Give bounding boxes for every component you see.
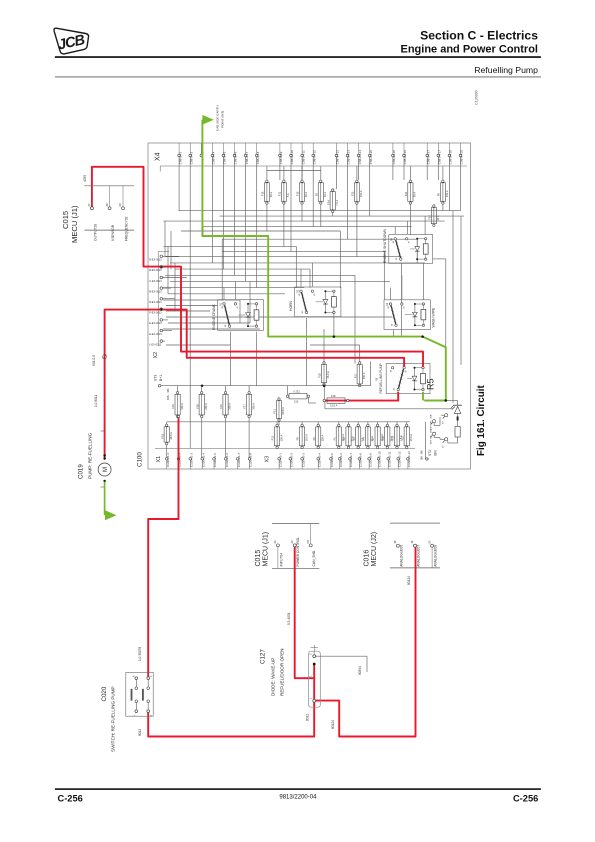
svg-text:X2: X2 <box>153 352 159 359</box>
svg-text:C100-X3-8: C100-X3-8 <box>359 453 363 467</box>
fuse F2 <box>342 422 355 449</box>
connector X4 bracket <box>160 165 467 167</box>
relay R2 HORN <box>289 287 341 317</box>
svg-text:C100-X1-7: C100-X1-7 <box>237 453 241 467</box>
svg-text:8012: 8012 <box>306 714 310 721</box>
red wire: C019 pump to X2-6 to R5 switch 87 <box>105 310 405 458</box>
svg-text:F24: F24 <box>428 215 432 220</box>
fuse F4 <box>362 422 375 449</box>
svg-text:150 A: 150 A <box>362 372 366 379</box>
svg-text:ST2: ST2 <box>428 450 432 456</box>
relay R1 ENGINE CRANK <box>212 300 263 331</box>
svg-text:27: 27 <box>87 203 91 207</box>
fuse F16 <box>160 422 173 458</box>
fuse F22 <box>351 180 364 204</box>
junction green/diode <box>445 399 448 402</box>
svg-text:0.5 4031: 0.5 4031 <box>287 612 291 625</box>
wire mesh vertical runs <box>165 157 461 448</box>
connector X1 pins <box>165 453 252 469</box>
svg-text:KEY SW :: 30A: KEY SW :: 30A <box>430 414 433 429</box>
svg-text:FREQUENCY02: FREQUENCY02 <box>125 216 129 241</box>
svg-text:28: 28 <box>105 203 109 207</box>
svg-text:C100-X3-6: C100-X3-6 <box>339 453 343 467</box>
svg-text:C-256: C-256 <box>58 794 83 804</box>
svg-text:Refuelling Pump: Refuelling Pump <box>474 65 538 75</box>
svg-text:C100-X1-6: C100-X1-6 <box>225 453 229 467</box>
svg-text:DIODE: WAKE-UP: DIODE: WAKE-UP <box>271 658 276 696</box>
svg-text:F17: F17 <box>243 404 247 409</box>
pin overlays <box>90 207 416 713</box>
svg-text:300 A: 300 A <box>204 403 208 410</box>
ST2 IGN cluster <box>420 414 448 461</box>
svg-text:C015: C015 <box>255 550 262 567</box>
svg-text:MECU (J1): MECU (J1) <box>70 205 79 243</box>
svg-text:X01 0.5: X01 0.5 <box>92 355 96 366</box>
svg-text:20: 20 <box>427 540 431 544</box>
red wire: fuse F28 to R5 switch 30 <box>326 392 399 401</box>
svg-text:WASH WIPE: WASH WIPE <box>432 307 436 327</box>
wire <box>248 418 250 458</box>
relay R4 ENGINE SHUTDOWN <box>383 229 433 264</box>
svg-text:F27: F27 <box>400 435 404 440</box>
svg-text:X3: X3 <box>264 456 270 463</box>
svg-text:E-EX-0013: E-EX-0013 <box>149 322 162 325</box>
LED indicator <box>447 401 462 444</box>
svg-text:150 A: 150 A <box>279 434 283 441</box>
svg-text:9813/2200-04: 9813/2200-04 <box>279 795 317 801</box>
svg-text:PUMP: RE-FUELLING: PUMP: RE-FUELLING <box>88 432 93 479</box>
svg-text:1.0 8011: 1.0 8011 <box>94 395 98 407</box>
svg-text:152: 152 <box>294 399 299 403</box>
svg-text:C100-X3-2: C100-X3-2 <box>290 453 294 467</box>
fuse F14 <box>326 189 339 213</box>
svg-text:F15: F15 <box>296 191 300 196</box>
svg-text:ANALOGUE09: ANALOGUE09 <box>434 545 438 567</box>
svg-text:F15: F15 <box>219 404 223 409</box>
svg-text:DIA :: M6: DIA :: M6 <box>166 388 170 400</box>
svg-text:15.0 A: 15.0 A <box>326 371 330 379</box>
svg-text:C016: C016 <box>364 550 371 567</box>
svg-text:C5: C5 <box>306 539 310 543</box>
svg-text:38.5 A: 38.5 A <box>169 432 173 440</box>
earth wire (green) R5 coil leg <box>422 392 424 401</box>
svg-text:HORN: HORN <box>289 300 293 311</box>
svg-text:ENGINE SHUTDOWN: ENGINE SHUTDOWN <box>383 229 387 263</box>
svg-text:IGN: IGN <box>434 450 438 456</box>
svg-text:1.0 30078: 1.0 30078 <box>138 647 142 661</box>
wire: bus extension <box>324 385 370 387</box>
svg-text:X1: X1 <box>156 456 162 463</box>
connector X3 pins <box>278 451 411 469</box>
red wire: fuse F19 down to C020 switch <box>148 418 178 677</box>
fuse F27 <box>400 422 413 449</box>
diode pack C127 WAKE-UP <box>260 645 368 707</box>
fuse F8 <box>296 422 309 449</box>
wire <box>225 418 227 458</box>
svg-text:ANALOGUE07: ANALOGUE07 <box>417 545 421 567</box>
svg-text:80394: 80394 <box>358 666 362 675</box>
fuse F21 <box>404 180 417 204</box>
svg-text:30 A: 30 A <box>304 192 308 197</box>
svg-text:Section C - Electrics: Section C - Electrics <box>420 29 538 43</box>
svg-text:B-EX-0013: B-EX-0013 <box>149 269 162 272</box>
svg-text:C100-X3-10: C100-X3-10 <box>378 451 382 467</box>
svg-text:CAN_SHD: CAN_SHD <box>312 550 316 566</box>
svg-text:ST3: ST3 <box>154 375 158 381</box>
fuse F1 <box>332 422 345 449</box>
svg-text:8012: 8012 <box>138 729 142 736</box>
svg-text:300 A: 300 A <box>180 403 184 410</box>
fuse F11 <box>278 180 291 204</box>
svg-text:INPUT04: INPUT04 <box>279 553 283 567</box>
svg-text:80124: 80124 <box>331 720 335 729</box>
svg-text:7.5 A: 7.5 A <box>335 200 339 206</box>
svg-text:ANALOGUE05: ANALOGUE05 <box>399 545 403 567</box>
svg-text:B-EX-0013: B-EX-0013 <box>149 290 162 293</box>
fuse F19 <box>171 386 184 418</box>
svg-text:CAB SIDE EARTH: CAB SIDE EARTH <box>216 105 220 131</box>
svg-text:KEY SW :: 15A: KEY SW :: 15A <box>430 429 433 444</box>
relay R5 REFUELLING PUMP <box>376 363 431 393</box>
svg-text:C100-X3-11: C100-X3-11 <box>387 451 391 467</box>
schematic frame C100 <box>148 143 471 469</box>
wire <box>201 418 203 458</box>
red wire: C020 to junction to C127 <box>148 702 314 737</box>
junction <box>201 384 204 387</box>
fuse F28 <box>323 387 349 408</box>
wire: engine shutdown coil exit <box>433 258 446 260</box>
svg-text:C019: C019 <box>78 464 85 479</box>
junction on green bus <box>421 335 424 338</box>
svg-text:B-EX-0013: B-EX-0013 <box>149 301 162 304</box>
fuse F13 <box>261 180 274 204</box>
svg-text:OUTPUT28: OUTPUT28 <box>93 224 97 241</box>
svg-text:SWITCH: RE-FUELLING PUMP: SWITCH: RE-FUELLING PUMP <box>111 686 116 752</box>
svg-text:X4: X4 <box>155 152 162 161</box>
connector C016 MECU (J2) <box>364 523 440 568</box>
fuse F11b <box>273 398 286 421</box>
svg-text:150 A: 150 A <box>320 434 324 441</box>
svg-text:80124: 80124 <box>407 576 411 585</box>
red wire: C015 J1 (lower) pin22 to C127 <box>295 547 314 678</box>
svg-text:REFUELLING PUMP: REFUELLING PUMP <box>379 363 383 393</box>
switch C020 RE-FUELLING PUMP <box>101 672 153 752</box>
svg-text:4035: 4035 <box>83 175 87 182</box>
svg-text:C-EX-0013: C-EX-0013 <box>149 280 162 283</box>
wire: fuse-top stubs <box>267 166 443 180</box>
svg-text:300 A: 300 A <box>251 403 255 410</box>
fuse F27 <box>353 362 366 387</box>
svg-text:F12: F12 <box>271 435 275 440</box>
svg-text:F16: F16 <box>160 433 164 438</box>
red wire: C127 internal <box>313 664 315 700</box>
svg-text:F14: F14 <box>326 200 330 205</box>
svg-text:29: 29 <box>118 203 122 207</box>
svg-text:F21: F21 <box>404 191 408 196</box>
connector C015 MECU (J1) <box>61 186 134 243</box>
svg-text:(8A : M6: (8A : M6 <box>420 450 424 460</box>
fuse F15 <box>219 386 232 418</box>
earth point arrow pump <box>105 510 117 520</box>
junction <box>323 384 326 387</box>
svg-text:150 A: 150 A <box>445 190 449 197</box>
fuse F15 <box>296 180 309 204</box>
svg-text:REFUEL/DOOR OPEN: REFUEL/DOOR OPEN <box>280 649 285 696</box>
svg-text:POWER CONTROL: POWER CONTROL <box>296 537 300 567</box>
fuse F9 <box>312 422 325 449</box>
fuse F17 <box>243 386 256 418</box>
svg-text:F28: F28 <box>331 394 336 398</box>
svg-text:C020: C020 <box>101 686 108 701</box>
motor C019 PUMP RE-FUELLING <box>78 431 112 487</box>
svg-text:C100-X1-1: C100-X1-1 <box>166 453 170 467</box>
svg-text:L-EX-0013: L-EX-0013 <box>149 343 162 346</box>
connector C015 MECU (J1) lower <box>255 524 320 569</box>
svg-text:B-EX-0013: B-EX-0013 <box>149 259 162 262</box>
fuse F24 <box>428 205 441 227</box>
connector X2 pins <box>149 255 186 346</box>
fuse F10 <box>381 422 394 449</box>
earth wire (green) pump leg <box>104 482 106 515</box>
svg-text:30 A: 30 A <box>323 192 327 197</box>
svg-text:C100-X1-4: C100-X1-4 <box>201 453 205 467</box>
svg-text:F25: F25 <box>318 373 322 378</box>
wire: under-relay return <box>324 402 326 409</box>
svg-text:C100: C100 <box>137 452 144 467</box>
svg-text:F11: F11 <box>273 409 277 414</box>
svg-text:19.0 A: 19.0 A <box>304 434 308 442</box>
svg-text:POINT (INT): POINT (INT) <box>221 111 225 128</box>
svg-text:F27: F27 <box>353 373 357 378</box>
svg-text:F11: F11 <box>278 191 282 196</box>
connector X4 pins <box>178 143 464 164</box>
connector strip line <box>155 448 415 450</box>
svg-text:Engine and Power Control: Engine and Power Control <box>400 44 538 56</box>
svg-text:5 A: 5 A <box>286 193 290 197</box>
earth wire (green) main run <box>202 120 445 401</box>
splice X01 <box>103 355 107 359</box>
svg-text:C100-X1-8: C100-X1-8 <box>249 453 253 467</box>
svg-text:M: M <box>103 467 109 472</box>
svg-text:C127: C127 <box>260 649 267 664</box>
svg-text:F13: F13 <box>261 191 265 196</box>
fuse F25 <box>318 362 331 387</box>
svg-text:C015: C015 <box>61 211 70 229</box>
svg-text:C100-X3-4: C100-X3-4 <box>317 453 321 467</box>
svg-text:300 A: 300 A <box>228 403 232 410</box>
svg-text:C100-X3-1: C100-X3-1 <box>278 453 282 467</box>
svg-text:C100-X1-5: C100-X1-5 <box>213 453 217 467</box>
svg-text:R5: R5 <box>426 378 436 390</box>
svg-text:15.0 A: 15.0 A <box>330 404 338 408</box>
varistor V231 <box>286 386 316 404</box>
fuse F12 <box>271 422 284 449</box>
header titles <box>55 29 541 78</box>
footer rule <box>55 788 541 790</box>
svg-text:15.0 A: 15.0 A <box>409 434 413 442</box>
svg-text:150 A: 150 A <box>359 190 363 197</box>
svg-text:18: 18 <box>393 540 397 544</box>
svg-text:F19: F19 <box>171 404 175 409</box>
svg-text:C100-X3-7: C100-X3-7 <box>349 453 353 467</box>
red wire: C127 to C016 J2 pin19 <box>315 547 416 736</box>
red wire: C015 J1 pin27 to X2-2 to R5 coil <box>92 167 423 367</box>
earth point arrow top <box>202 115 213 125</box>
junction red X2-2 <box>160 266 163 269</box>
svg-text:F20: F20 <box>195 404 199 409</box>
svg-text:Fig 161. Circuit: Fig 161. Circuit <box>476 384 487 456</box>
svg-text:C100-X3-12: C100-X3-12 <box>397 451 401 467</box>
junction red X2-6 <box>160 308 163 311</box>
svg-text:MECU (J1): MECU (J1) <box>262 532 269 567</box>
svg-text:30 A: 30 A <box>269 192 273 197</box>
fuse F7 <box>371 422 384 449</box>
svg-text:F10: F10 <box>381 435 385 440</box>
JCB logo <box>54 28 89 54</box>
svg-text:C100-X1-3: C100-X1-3 <box>190 453 194 467</box>
svg-text:C100-X3-9: C100-X3-9 <box>368 453 372 467</box>
relay R3 WASH WIPE <box>384 300 436 330</box>
svg-text:C100-X3-13: C100-X3-13 <box>407 451 411 467</box>
svg-text:F22: F22 <box>351 191 355 196</box>
svg-text:22: 22 <box>290 540 294 544</box>
wire mesh horizontal runs <box>163 211 464 345</box>
connector X2 bracket <box>157 252 159 347</box>
svg-text:ENGINE CRANK: ENGINE CRANK <box>212 303 216 330</box>
svg-text:C100-X3-5: C100-X3-5 <box>330 453 334 467</box>
svg-text:C-256: C-256 <box>513 794 538 804</box>
svg-text:30 A: 30 A <box>413 192 417 197</box>
fuse F6 <box>437 180 450 204</box>
svg-text:P-EX-0013: P-EX-0013 <box>149 312 162 315</box>
fuse F23 <box>391 422 404 449</box>
svg-text:38.8 A: 38.8 A <box>281 407 285 415</box>
svg-text:VSENSOR: VSENSOR <box>111 224 115 241</box>
svg-text:E-EX-0013: E-EX-0013 <box>149 333 162 336</box>
fuse F3 <box>352 422 365 449</box>
fuse F20 <box>195 386 208 418</box>
svg-text:MECU (J2): MECU (J2) <box>371 532 378 567</box>
rail to fuse bank X1/X3 <box>167 421 410 423</box>
bus ST3 B+1 <box>160 385 325 387</box>
svg-text:19: 19 <box>410 540 414 544</box>
svg-text:C100-X3-3: C100-X3-3 <box>301 453 305 467</box>
svg-text:B+1: B+1 <box>159 375 163 381</box>
fuse F5 <box>314 180 327 204</box>
svg-text:26: 26 <box>273 540 277 544</box>
junction on green bus <box>333 335 336 338</box>
svg-text:V 231: V 231 <box>293 390 300 394</box>
svg-text:C126990: C126990 <box>475 90 479 105</box>
svg-text:F23: F23 <box>391 435 395 440</box>
wire <box>278 422 280 425</box>
